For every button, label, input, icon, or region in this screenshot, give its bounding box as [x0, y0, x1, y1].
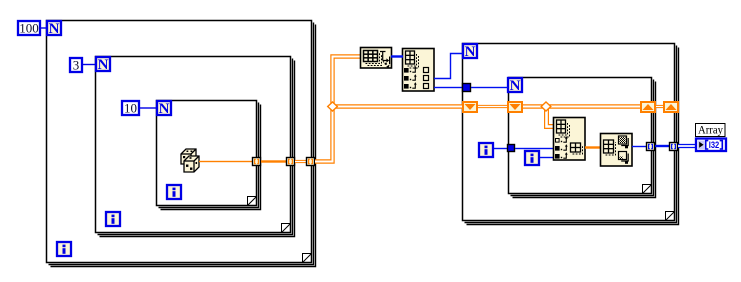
random number (dice) function [181, 149, 199, 172]
iteration terminal i2 [106, 212, 120, 226]
tunnel blue L4 [463, 84, 471, 92]
wire 2D to indicator [678, 144, 696, 148]
iteration terminal i3 [167, 185, 181, 199]
wire branch to Index Array [547, 108, 554, 127]
numeric constant 100 [18, 21, 40, 36]
numeric constant 10 [122, 101, 139, 116]
for-loop L1 (count 100) shadow [49, 23, 316, 267]
for-loop L2 (count 3) border [96, 57, 291, 233]
for-loop L4 (right outer) fold corner [666, 212, 675, 221]
iteration terminal i1 [57, 242, 71, 256]
auto-index tunnel L1 [307, 158, 315, 166]
count terminal N4 [463, 44, 477, 60]
wire junction J2 [541, 102, 551, 111]
wire element 1D [585, 146, 601, 148]
Array Size function [361, 48, 392, 69]
for-loop L5 (right inner) fold corner [643, 185, 652, 194]
right shift register L4 [664, 102, 678, 112]
svg-text:N: N [159, 101, 170, 117]
wire to tunnel L5 out [632, 146, 647, 147]
array indicator Array [I32] [696, 123, 727, 152]
for-loop L3 (count 10) fold corner [248, 197, 257, 206]
wire between right shift registers [656, 105, 663, 108]
svg-text:10: 10 [124, 101, 137, 116]
Index Array function (sizes) [403, 49, 435, 92]
count terminal N1 [47, 21, 61, 37]
auto-index tunnel L2 [287, 158, 295, 166]
count terminal N2 [96, 57, 110, 73]
wire 1D out [655, 145, 670, 147]
numeric constant 3 [70, 58, 82, 73]
for-loop L5 (right inner) shadow [511, 80, 656, 198]
iteration terminal i4 [479, 143, 493, 157]
wire i5 [540, 157, 554, 158]
svg-text:Array: Array [698, 123, 723, 137]
for-loop L3 (count 10) border [157, 101, 257, 206]
wire 3D array to Array Size [315, 57, 360, 162]
for-loop L2 (count 3) shadow [98, 59, 295, 237]
for-loop L4 (right outer) shadow [465, 46, 679, 225]
Index Array function (element) [554, 118, 586, 161]
wire dice scalar out [199, 161, 253, 162]
output tunnel L5 [647, 143, 655, 151]
count terminal N3 [157, 101, 171, 117]
wire 2D array L2-L1 [295, 160, 306, 163]
svg-text:N: N [465, 44, 476, 60]
auto-index tunnel L3 [253, 158, 261, 166]
for-loop L1 (count 100) border [47, 21, 312, 263]
wire 2D in L5 [523, 104, 640, 108]
wire i4 seg1 [494, 148, 508, 149]
output tunnel L4 [670, 143, 678, 151]
wire 3-to-N2 [83, 64, 96, 65]
conversion function [601, 134, 633, 167]
wire 2D in L4 [478, 105, 508, 108]
wire 3D array to right loop [334, 104, 462, 108]
for-loop L1 (count 100) fold corner [303, 254, 312, 263]
svg-text:3: 3 [73, 58, 80, 73]
svg-text:I32: I32 [709, 140, 720, 151]
for-loop L4 (right outer) border [463, 44, 675, 221]
svg-text:N: N [98, 57, 109, 73]
iteration terminal i5 [525, 151, 539, 165]
wire size[2] seg2 [471, 87, 508, 88]
svg-text:N: N [510, 78, 521, 94]
wire 1D array L3-L2 [261, 160, 287, 162]
right shift register L5 [641, 102, 655, 112]
wire 10-to-N3 [140, 107, 157, 108]
wire size[1] to N4 [434, 54, 463, 79]
for-loop L5 (right inner) border [509, 78, 652, 194]
tunnel blue L5 [508, 145, 515, 152]
count terminal N5 [508, 78, 522, 94]
for-loop L2 (count 3) fold corner [282, 224, 291, 233]
svg-text:100: 100 [19, 21, 39, 36]
wire junction J1 [328, 102, 338, 111]
for-loop L3 (count 10) shadow [159, 103, 261, 210]
wire size[2] seg1 [434, 87, 463, 88]
wire 100-to-N1 [41, 27, 47, 28]
svg-text:N: N [49, 21, 60, 37]
left shift register L4 [463, 102, 477, 112]
left shift register L5 [508, 102, 522, 112]
wire i4 seg2 [515, 148, 554, 149]
wire 1D sizes [391, 55, 403, 57]
